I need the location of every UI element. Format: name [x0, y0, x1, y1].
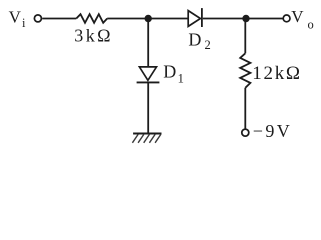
svg-text:−9V: −9V — [253, 121, 292, 141]
svg-text:V: V — [9, 8, 22, 27]
diode D2 — [188, 8, 202, 27]
label Vi — [9, 8, 26, 30]
svg-text:i: i — [22, 16, 26, 30]
wire R1 to D2 anode through node A — [107, 18, 188, 20]
supply terminal -9V — [242, 129, 249, 136]
svg-text:3kΩ: 3kΩ — [74, 26, 113, 46]
svg-text:2: 2 — [205, 38, 211, 52]
output terminal Vo — [283, 15, 290, 22]
svg-text:V: V — [291, 7, 304, 26]
svg-text:D: D — [163, 62, 176, 82]
wire input terminal to R1 — [42, 18, 76, 20]
wire R2 to -9V terminal — [244, 88, 246, 129]
resistor R2 12kOhm — [240, 53, 250, 88]
node A junction dot — [145, 15, 152, 22]
label D1 — [163, 62, 184, 86]
wire D1 cathode to ground — [147, 82, 149, 133]
svg-text:1: 1 — [178, 71, 184, 85]
wire node B to output terminal — [246, 18, 283, 20]
wire node A to D1 anode — [147, 19, 149, 67]
label D2 — [188, 29, 210, 52]
label Vo — [291, 7, 314, 32]
resistor R1 3kOhm — [76, 14, 107, 23]
input terminal Vi — [34, 15, 41, 22]
ground — [132, 134, 161, 143]
svg-text:o: o — [308, 18, 314, 32]
svg-text:D: D — [188, 29, 201, 49]
node B junction dot — [242, 15, 249, 22]
wire node B to R2 — [244, 19, 246, 54]
wire D2 cathode to node B — [203, 18, 246, 20]
svg-text:12kΩ: 12kΩ — [252, 63, 301, 84]
diode D1 — [137, 67, 160, 83]
